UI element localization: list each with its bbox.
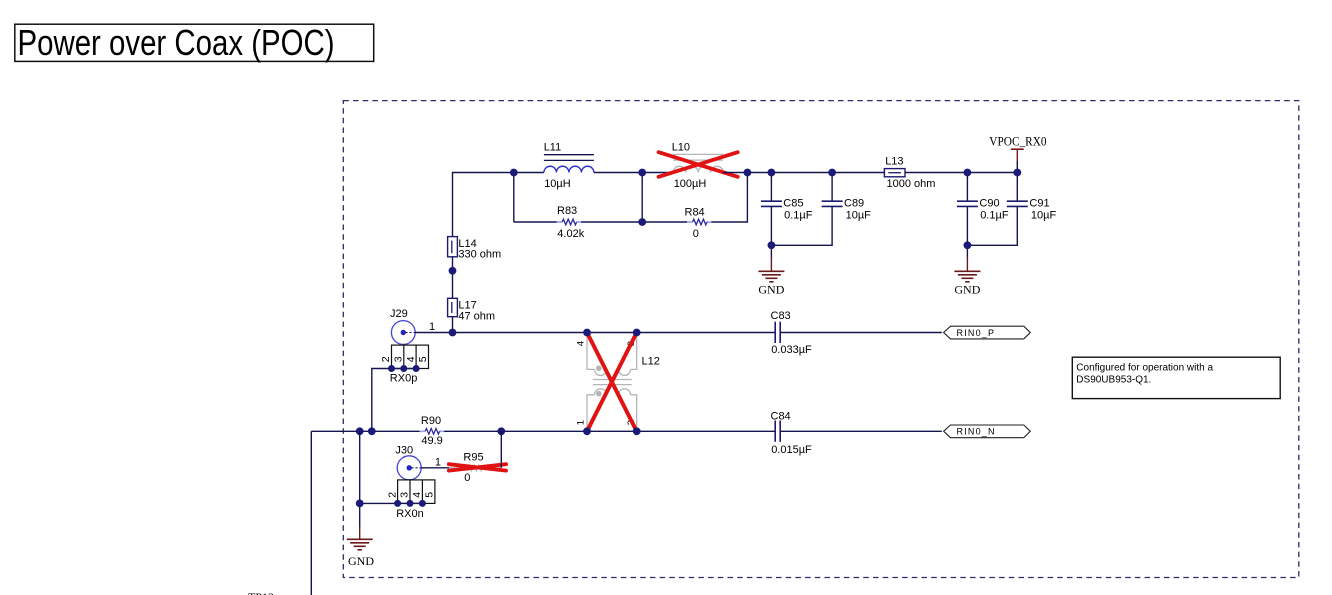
svg-text:2: 2 (386, 492, 398, 498)
wire top rail between L10 and L13 (723, 172, 884, 174)
wire C84 to RIN0_N flag (780, 430, 942, 432)
junction rail at C85 (768, 169, 776, 177)
wire from rail down to R83/R84 node (641, 173, 643, 223)
svg-text:2: 2 (380, 356, 392, 362)
wire between L14 and L17 (452, 257, 454, 299)
svg-text:R95: R95 (463, 452, 483, 464)
svg-text:5: 5 (417, 356, 429, 362)
svg-text:0.015µF: 0.015µF (771, 444, 812, 456)
capacitor C84 (771, 410, 813, 456)
junction RIN0_P at L17 node (449, 329, 457, 337)
wire R83 row left lead (514, 221, 557, 223)
svg-text:C90: C90 (979, 197, 999, 209)
junction RX0p pin 2 (388, 365, 395, 372)
resistor R90 (420, 415, 444, 447)
svg-text:VPOC_RX0: VPOC_RX0 (989, 135, 1046, 149)
svg-text:3: 3 (393, 356, 405, 362)
junction between L14 and L17 (449, 267, 457, 275)
svg-text:Configured for operation with: Configured for operation with a (1076, 363, 1213, 374)
svg-text:3: 3 (399, 492, 411, 498)
svg-text:RIN0_P: RIN0_P (957, 328, 996, 338)
transformer L12 (not populated, greyed) (587, 333, 637, 432)
ferrite bead L14 (448, 237, 502, 261)
inductor L10 (not populated, greyed) (672, 142, 724, 190)
coax connector J30 (395, 445, 441, 480)
capacitor C83 (771, 310, 813, 356)
junction C90 bottom (964, 241, 972, 249)
capacitor C85 (761, 173, 813, 246)
wire R95 right up to RIN0_N row (500, 431, 502, 468)
svg-text:TP12: TP12 (248, 590, 274, 595)
svg-text:RX0p: RX0p (390, 372, 418, 384)
ferrite bead L17 (448, 298, 496, 322)
junction R83/R84 node (638, 218, 646, 226)
svg-text:330 ohm: 330 ohm (458, 249, 501, 261)
svg-text:C85: C85 (783, 197, 803, 209)
svg-text:GND: GND (348, 554, 374, 568)
junction L12 pin 4 (583, 329, 591, 337)
svg-text:1: 1 (429, 321, 435, 333)
capacitor C90 (957, 173, 1009, 246)
junction rail at mid branch (638, 169, 646, 177)
coax connector J29 (390, 308, 435, 344)
net flag RIN0_P (944, 326, 1031, 339)
svg-text:R90: R90 (421, 415, 441, 427)
wire J29 pin1 to node (415, 332, 452, 334)
capacitor C89 (771, 173, 871, 246)
ground symbol GND (bottom) (347, 527, 375, 568)
wire GND branch vertical (359, 431, 361, 527)
junction RX0p pin 3 (400, 365, 407, 372)
ground symbol GND (under C90) (954, 245, 980, 296)
junction rail at C91 / VPOC (1013, 169, 1021, 177)
svg-text:0: 0 (693, 228, 699, 240)
resistor R95 (not populated, greyed) (449, 452, 501, 484)
svg-text:0: 0 (464, 472, 470, 484)
svg-text:C89: C89 (844, 197, 864, 209)
ferrite bead L13 (884, 156, 935, 191)
svg-text:R83: R83 (557, 205, 577, 217)
svg-text:GND: GND (758, 283, 784, 297)
svg-text:1: 1 (435, 457, 441, 469)
wire R90 to C84 (444, 430, 775, 432)
svg-text:47 ohm: 47 ohm (458, 311, 495, 323)
svg-text:5: 5 (424, 492, 436, 498)
svg-text:0.1µF: 0.1µF (784, 210, 813, 222)
svg-text:49.9: 49.9 (421, 435, 442, 447)
svg-text:RIN0_N: RIN0_N (957, 427, 996, 437)
svg-text:GND: GND (954, 283, 980, 297)
junction RX0n pin 2 (394, 500, 401, 507)
inductor L11 (544, 142, 594, 191)
junction RIN0_N left at GND branch (356, 427, 364, 435)
wire from rail down to R83 row (513, 173, 515, 223)
junction RX0n pin 4 (419, 500, 426, 507)
svg-text:100µH: 100µH (674, 178, 707, 190)
ground symbol GND (under C85) (758, 245, 784, 296)
resistor R83 (557, 205, 585, 240)
svg-text:L11: L11 (544, 142, 562, 154)
svg-text:4: 4 (576, 341, 587, 346)
wire between L17 and RIN0_P row (452, 317, 454, 333)
svg-text:L17: L17 (458, 299, 476, 311)
wire R84 right lead and up to rail (712, 173, 748, 223)
svg-text:C91: C91 (1029, 197, 1049, 209)
wire top rail right segment (905, 172, 1017, 174)
svg-text:J29: J29 (390, 308, 408, 320)
wire top rail left segment (453, 172, 544, 174)
svg-text:R84: R84 (685, 206, 705, 218)
svg-text:J30: J30 (395, 445, 413, 457)
transformer L12 labels (576, 341, 660, 425)
wire between R83 and R84 (581, 221, 687, 223)
wire J30 pin1 to R95 (421, 467, 449, 469)
junction RX0n pin 3 (407, 500, 414, 507)
svg-text:4: 4 (405, 356, 417, 362)
capacitor C91 (967, 173, 1056, 246)
junction RX0p pin 4 (413, 365, 420, 372)
svg-text:1: 1 (576, 420, 587, 425)
red X over L10 (659, 152, 738, 177)
svg-text:L10: L10 (672, 142, 690, 154)
junction rail at C89 (828, 169, 836, 177)
red X over R95 (449, 464, 506, 470)
resistor R84 (685, 206, 712, 240)
wire RIN0_N row to R90 (311, 430, 419, 432)
junction RIN0_N at RX0p drop (368, 427, 376, 435)
net flag RIN0_N (944, 425, 1031, 438)
wire RIN0_N row left corner down (310, 431, 312, 595)
svg-text:L13: L13 (885, 156, 903, 168)
title: Power over Coax (POC) (15, 23, 374, 63)
wire RX0n pins to GND branch (360, 502, 423, 504)
svg-text:RX0n: RX0n (396, 508, 424, 520)
svg-text:10µH: 10µH (544, 178, 571, 190)
junction L12 pin 1 (583, 427, 591, 435)
svg-text:10µF: 10µF (1031, 210, 1057, 222)
wire RX0p pins to left drop (372, 369, 416, 432)
svg-text:DS90UB953-Q1.: DS90UB953-Q1. (1076, 374, 1151, 385)
svg-text:L12: L12 (642, 355, 660, 367)
note: configured for operation (1072, 357, 1280, 398)
junction rail at C90 (964, 169, 972, 177)
wire C83 to RIN0_P flag (780, 332, 942, 334)
svg-text:4: 4 (411, 492, 423, 498)
svg-text:C83: C83 (771, 310, 791, 322)
svg-text:C84: C84 (771, 410, 791, 422)
junction GND branch at RX0n wire (356, 500, 364, 508)
red X over L12 (587, 333, 637, 432)
svg-text:1000 ohm: 1000 ohm (887, 178, 936, 190)
svg-text:0.1µF: 0.1µF (980, 210, 1009, 222)
junction rail at R83 branch (510, 169, 518, 177)
wire RIN0_P row from node to C83 (453, 332, 776, 334)
power flag VPOC_RX0 (989, 135, 1046, 173)
svg-text:4.02k: 4.02k (557, 228, 584, 240)
pin header RX0n (386, 480, 435, 520)
junction C85 bottom (768, 241, 776, 249)
wire top rail between L11 and L10 (594, 172, 673, 174)
junction L12 pin 2 (633, 427, 641, 435)
junction L12 pin 3 (633, 329, 641, 337)
pin header RX0p (380, 345, 429, 384)
junction rail at R84 branch (744, 169, 752, 177)
svg-text:0.033µF: 0.033µF (771, 344, 812, 356)
wire left vertical from rail to L14 (452, 172, 454, 237)
junction RIN0_N at R95 branch (497, 427, 505, 435)
svg-text:Power over Coax (POC): Power over Coax (POC) (18, 23, 335, 63)
svg-text:10µF: 10µF (846, 210, 872, 222)
